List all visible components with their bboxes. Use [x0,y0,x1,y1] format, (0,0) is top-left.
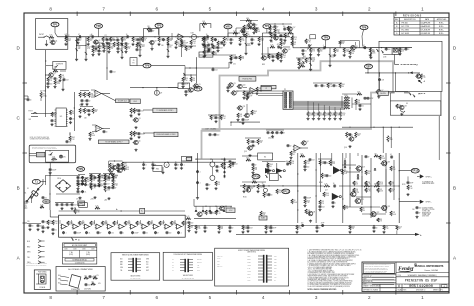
trim cluster 1 [129,108,143,129]
cluster x330-345 [333,41,359,57]
svg-text:Q5: Q5 [139,141,141,143]
svg-text:100: 100 [191,222,194,224]
svg-text:47: 47 [209,184,211,186]
box K2 [168,83,190,89]
output notes text [422,207,435,217]
svg-text:R94: R94 [279,53,282,55]
svg-text:100K: 100K [91,135,95,137]
svg-text:GRY: GRY [146,267,149,269]
opamp ladder box [59,215,189,237]
svg-text:SPKR -: SPKR - [426,202,432,204]
test point TP4 [263,24,271,33]
svg-text:68K: 68K [150,224,153,226]
svg-text:470P: 470P [185,83,189,85]
svg-text:.1: .1 [199,171,200,173]
label small y157 [186,157,191,160]
stage column x76 [75,37,86,61]
svg-text:22K: 22K [241,58,244,60]
svg-text:7: 7 [102,295,105,300]
svg-text:68K: 68K [220,228,223,230]
svg-text:TP3: TP3 [157,24,162,28]
svg-text:2: 2 [368,7,371,12]
oval TP9 [77,167,85,172]
emitter resistors [360,166,396,222]
svg-text:100V: 100V [274,256,277,258]
svg-text:68K: 68K [81,224,84,226]
svg-text:22K: 22K [161,224,164,226]
svg-text:220K: 220K [124,165,128,167]
svg-text:22: 22 [262,183,264,185]
svg-text:1000P: 1000P [245,119,249,121]
svg-text:1.5K: 1.5K [398,107,401,109]
svg-text:1.5K: 1.5K [306,202,309,204]
svg-text:(120V): (120V) [69,254,74,256]
wire y92 stub [396,73,409,92]
svg-text:Q16: Q16 [344,147,347,149]
svg-text:100: 100 [111,232,114,234]
transformer label T1 [32,179,46,184]
pamp feedback row [291,183,350,211]
svg-text:100K: 100K [392,214,396,216]
drive cluster right [318,153,343,223]
resistor R30 [40,90,46,101]
svg-text:BLU/WH: BLU/WH [197,262,202,264]
cluster around U5 [38,110,75,126]
svg-text:10: 10 [333,183,335,185]
svg-text:TP7: TP7 [366,65,371,69]
wire main chain [58,36,291,37]
ps lower cluster [194,206,236,219]
svg-text:.047: .047 [74,204,77,206]
svg-text:22K: 22K [132,134,135,136]
input jack J1 [38,34,49,46]
svg-text:10K: 10K [184,224,187,226]
stage Q2 cluster [92,35,115,50]
svg-text:22K: 22K [259,187,262,189]
svg-text:470P: 470P [273,227,277,229]
svg-text:R175: R175 [293,37,297,39]
svg-text:POWER XFMR: POWER XFMR [71,289,80,291]
svg-text:BLU: BLU [58,283,61,285]
svg-text:Q21: Q21 [361,199,364,201]
transformer wiring box 1 [111,253,160,281]
transistor Q6 [348,41,359,59]
svg-text:A+: A+ [116,208,118,211]
svg-text:Q6: Q6 [356,46,358,48]
svg-text:TITLE: TITLE [398,275,402,277]
svg-text:100K: 100K [141,46,144,48]
svg-text:INPUT: INPUT [39,34,44,36]
svg-text:.022: .022 [215,69,218,71]
svg-text:220K: 220K [344,98,348,100]
svg-text:1.5K: 1.5K [344,103,347,105]
svg-text:47K: 47K [90,40,93,42]
notes list [308,249,362,291]
svg-text:22: 22 [255,164,257,166]
op-amp U1A [172,33,188,49]
svg-text:R88: R88 [262,64,265,66]
chain drops 120-145 [116,42,142,53]
voltages box [56,267,105,292]
svg-text:Q3: Q3 [234,83,236,85]
svg-text:R81: R81 [271,27,274,29]
svg-text:220-240V: 220-240V [217,266,223,268]
oval label T-loop [143,63,151,68]
svg-text:1.2V: 1.2V [96,275,99,277]
svg-text:BRN: BRN [58,279,61,281]
svg-text:15K: 15K [355,184,358,186]
svg-text:47: 47 [368,156,370,158]
reg circle U12 [210,159,226,173]
input jack box J1 [36,19,68,50]
svg-text:1.5K: 1.5K [76,212,79,214]
svg-text:68K: 68K [78,48,81,50]
bl caps [27,221,44,231]
svg-text:1000P: 1000P [52,169,56,171]
svg-text:4.7K: 4.7K [114,185,117,187]
svg-text:1.5K: 1.5K [54,223,57,225]
cluster x200-215 [201,34,218,47]
svg-text:220K: 220K [115,45,119,47]
right conn caps [342,92,373,101]
svg-text:4.7K: 4.7K [92,187,95,189]
reg right dense [229,160,238,168]
svg-text:47K: 47K [239,116,242,118]
svg-text:10: 10 [271,194,273,196]
stage column x330 [328,48,334,67]
svg-text:2.2K: 2.2K [298,228,301,230]
svg-text:U6: U6 [96,93,98,95]
svg-text:Q9: Q9 [160,93,162,95]
svg-text:22: 22 [324,85,326,87]
svg-text:.022: .022 [113,71,116,73]
svg-text:10K: 10K [254,169,257,171]
svg-text:220K: 220K [372,52,375,54]
output transistors Q18-Q23 [350,161,391,217]
svg-text:YEL: YEL [27,257,30,259]
label box ps1 [78,201,85,206]
svg-text:220K: 220K [206,39,210,41]
svg-text:1000P: 1000P [134,232,138,234]
wire U6 out [102,94,116,101]
connector arrows [27,240,45,265]
svg-text:LED: LED [63,157,66,159]
footswitch LED CR15 [60,155,66,159]
svg-text:.047: .047 [224,42,227,44]
svg-text:Q10: Q10 [243,85,246,87]
out RC [402,176,413,195]
svg-text:47: 47 [157,232,159,234]
svg-text:47: 47 [230,87,232,89]
svg-text:330: 330 [244,228,247,230]
svg-text:68K: 68K [123,40,126,42]
wire into conn [236,90,283,95]
svg-text:4.7K: 4.7K [40,205,43,207]
dsp wire mid [230,122,260,127]
svg-text:22K: 22K [42,95,45,97]
svg-text:10: 10 [106,131,108,133]
chain wire ext right [370,47,412,48]
svg-text:6: 6 [156,295,159,300]
svg-text:BLK: BLK [58,275,61,277]
svg-text:6 GRN: 6 GRN [247,271,251,273]
DSP board outline (gray) [202,61,394,158]
pamp bias diodes [357,168,376,180]
svg-text:47: 47 [78,34,80,36]
fuse area extra [32,179,59,217]
svg-text:Q17: Q17 [293,27,296,29]
svg-text:470P: 470P [249,95,253,97]
svg-text:4.7K: 4.7K [346,51,349,53]
footswitch plug P4 [29,152,45,157]
svg-text:22K: 22K [341,43,344,45]
test point TP1 [51,22,59,37]
wire y68 ext [196,62,229,71]
svg-text:.022: .022 [124,168,127,170]
svg-text:U9: U9 [406,103,408,105]
svg-text:4.7K: 4.7K [270,45,273,47]
svg-text:470P: 470P [370,98,374,100]
gap fill x215-240 [216,31,240,53]
second level wires [178,45,218,51]
gray label J2-a [261,85,276,89]
svg-text:1.5K: 1.5K [385,228,388,230]
volume pot stage3 [180,39,186,57]
pamp horiz connects [342,165,399,214]
svg-text:100K: 100K [247,45,250,47]
svg-text:22K: 22K [391,191,394,193]
svg-text:220K: 220K [293,202,297,204]
svg-text:47: 47 [100,232,102,234]
svg-text:15K: 15K [282,44,285,46]
svg-text:.047: .047 [220,47,223,49]
dsp caps row [266,130,285,140]
svg-text:2.2K: 2.2K [260,40,263,42]
svg-text:47K: 47K [321,203,324,205]
ps right rail [195,159,236,160]
svg-text:U1: U1 [179,37,181,39]
dsp text marks [206,128,218,131]
svg-text:1: 1 [421,7,424,12]
svg-text:10: 10 [45,227,47,229]
svg-text:1: 1 [421,295,424,300]
label box small [261,87,271,91]
dist bottom rail [236,233,422,237]
chain row C wire [300,47,370,48]
svg-text:1.5K: 1.5K [329,86,332,88]
svg-text:NOTES: UNLESS OTHERWISE SPECIF: NOTES: UNLESS OTHERWISE SPECIFIED [308,289,337,291]
stage cluster x240-262 [236,26,264,46]
svg-text:68K: 68K [357,102,360,104]
svg-text:9 GRY: 9 GRY [247,280,251,282]
svg-text:470P: 470P [101,180,105,182]
svg-text:.1: .1 [115,180,116,182]
ladder left caps [41,220,58,235]
svg-text:Q0: Q0 [251,188,253,190]
pamp in components [242,180,273,199]
svg-text:C90: C90 [412,209,415,211]
svg-text:Q5: Q5 [54,73,56,75]
svg-text:CT: CT [274,280,276,282]
svg-text:R30: R30 [43,90,46,92]
test point TP2 [95,24,103,37]
svg-text:22: 22 [89,100,91,102]
crystal drop wire [383,54,394,64]
svg-text:1.5K: 1.5K [293,39,296,41]
wire top dsp row [199,50,236,57]
svg-text:.01: .01 [88,232,90,234]
capacitor C1 [76,37,82,44]
svg-text:R7: R7 [105,35,107,37]
stage column x205 [203,37,209,57]
svg-text:1.5K: 1.5K [49,35,52,37]
svg-text:2.2K: 2.2K [100,185,103,187]
svg-text:1.5K: 1.5K [241,40,244,42]
svg-text:10: 10 [32,225,34,227]
svg-text:4.7K: 4.7K [312,51,315,53]
ac text2 [25,206,28,210]
Q10 cluster [237,84,254,99]
svg-text:Q4: Q4 [307,141,309,143]
svg-text:HT2: HT2 [274,277,277,279]
chain tail [363,47,374,56]
svg-text:DSP: DSP [206,129,209,131]
svg-text:10: 10 [93,175,95,177]
svg-text:Q18: Q18 [362,166,365,168]
stage column x168 [166,37,172,58]
footswitch switch S4 [49,151,53,156]
svg-text:Q2: Q2 [194,88,196,90]
svg-text:4.7K: 4.7K [233,31,236,33]
pamp vert rail1 [297,153,298,223]
title block [362,262,449,292]
svg-text:.022: .022 [235,163,238,165]
switch S1 [25,193,33,203]
svg-text:.022: .022 [246,31,249,33]
wire footswitch riser [45,85,46,117]
svg-text:4 ORG: 4 ORG [247,265,251,267]
rounded footswitch box [29,145,75,163]
svg-text:22K: 22K [351,228,354,230]
svg-text:F1: F1 [27,188,29,190]
svg-text:4.7K: 4.7K [307,42,310,44]
svg-text:.1: .1 [57,78,58,80]
svg-text:22K: 22K [110,48,113,50]
stage2 lower parts [91,42,109,56]
svg-text:B: B [453,186,456,191]
svg-text:5 YEL: 5 YEL [247,268,251,270]
svg-text:68K: 68K [245,28,248,30]
revisions table [394,13,449,35]
svg-text:.047: .047 [107,184,110,186]
Q7 cluster [375,73,384,98]
input lower cluster [45,50,69,92]
svg-text:TP10: TP10 [253,175,260,179]
op-amp U6B [88,125,110,140]
svg-text:100: 100 [286,161,289,163]
lower box right [390,101,441,115]
test point TP3 [155,23,163,36]
svg-text:1.5K: 1.5K [222,118,225,120]
svg-text:22K: 22K [336,51,339,53]
svg-text:4.7K: 4.7K [367,191,370,193]
relay driver box U5 [55,108,68,127]
dist extra [301,223,402,235]
svg-text:ORG: ORG [120,267,123,269]
cluster x300-320 [301,35,315,58]
svg-text:10: 10 [30,99,32,101]
svg-text:EC 2892: EC 2892 [402,30,409,32]
bias transistors [320,153,341,208]
svg-text:22: 22 [178,164,180,166]
dist drops [194,226,388,234]
svg-text:(240V): (240V) [86,254,91,256]
ladder top marks [71,238,80,242]
svg-text:47: 47 [363,45,365,47]
svg-text:1.5K: 1.5K [331,57,334,59]
svg-text:330: 330 [246,158,249,160]
svg-text:VR1: VR1 [225,25,231,29]
svg-text:3: 3 [315,295,318,300]
svg-text:120V: 120V [274,259,277,261]
ps bottom extra [55,202,77,210]
svg-text:330: 330 [169,40,172,42]
svg-text:.01: .01 [146,232,148,234]
svg-text:.047: .047 [283,39,286,41]
svg-text:240V: 240V [274,268,277,270]
svg-text:SPKR +: SPKR + [426,176,432,178]
svg-text:330: 330 [206,46,209,48]
svg-text:5: 5 [209,295,212,300]
test point TP6 [360,25,368,48]
svg-text:100K: 100K [389,139,393,141]
svg-text:Q13: Q13 [244,151,247,153]
stage column x246 [244,37,250,55]
oval TP12 [399,168,419,173]
note italic text [30,137,50,141]
svg-text:47K: 47K [267,228,270,230]
svg-text:6: 6 [156,7,159,12]
resistor stack right [342,95,364,111]
svg-text:2.2K: 2.2K [71,139,74,141]
svg-text:.1: .1 [80,177,81,179]
svg-text:2.2K: 2.2K [324,184,327,186]
svg-text:Q17: Q17 [325,190,328,192]
tf1 core bars [133,258,137,272]
svg-text:4.7K: 4.7K [192,43,195,45]
svg-text:.1: .1 [211,49,212,51]
svg-text:10K: 10K [401,51,404,53]
svg-text:100K: 100K [379,184,383,186]
svg-text:U6B: U6B [97,128,100,130]
svg-text:Corona, CA USA: Corona, CA USA [424,269,438,272]
ps caps tall2 [103,174,118,188]
svg-text:22: 22 [87,184,89,186]
mid boxes row [226,83,261,100]
svg-text:22: 22 [232,227,234,229]
svg-text:68K: 68K [279,55,282,57]
svg-text:OUTPUT POWER:: OUTPUT POWER: [422,207,434,209]
svg-text:.1: .1 [180,232,181,234]
svg-text:10K: 10K [187,49,190,51]
svg-text:1000P: 1000P [184,42,188,44]
svg-text:.1: .1 [207,227,208,229]
svg-text:.047: .047 [250,227,253,229]
svg-text:47: 47 [318,85,320,87]
bus risers [308,101,340,111]
svg-text:10K: 10K [307,61,310,63]
svg-text:10K: 10K [202,21,205,23]
